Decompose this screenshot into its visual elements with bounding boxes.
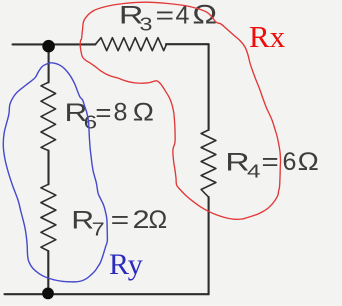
label R7 = 2 ohm: [71, 206, 167, 240]
node bottom junction: [42, 288, 54, 300]
wire R7 to bottom node: [47, 251, 49, 293]
wire between R6 and R7: [47, 151, 49, 185]
svg-text:Rx: Rx: [249, 19, 286, 54]
resistor R4: [201, 130, 216, 197]
label R6 = 8 ohm: [65, 99, 155, 133]
svg-text:=: =: [156, 2, 175, 30]
resistor R3: [96, 38, 167, 51]
label R4 = 6 ohm: [225, 148, 319, 182]
wire right vertical lower: [208, 197, 210, 294]
red loop Rx (encircles R3 and R4): [80, 2, 280, 219]
node top junction: [42, 40, 55, 53]
svg-text:=: =: [95, 99, 111, 127]
svg-text:Ω: Ω: [192, 0, 217, 30]
svg-text:=: =: [262, 148, 279, 176]
svg-text:3: 3: [140, 15, 153, 35]
wire top-right segment: [166, 43, 209, 45]
svg-text:7: 7: [92, 220, 105, 240]
wire top-left segment: [13, 43, 96, 45]
svg-text:Ry: Ry: [109, 248, 143, 281]
wire bottom: [5, 293, 209, 295]
svg-text:=: =: [111, 206, 130, 234]
svg-text:8: 8: [114, 99, 128, 127]
resistor R7: [41, 184, 56, 251]
wire left branch node to R6: [48, 46, 50, 82]
svg-text:Ω: Ω: [149, 206, 168, 234]
svg-text:4: 4: [247, 162, 261, 182]
label R3 = 4 ohm: [119, 0, 217, 35]
blue loop Ry (encircles R6 and R7): [3, 63, 107, 282]
svg-text:Ω: Ω: [298, 148, 319, 176]
svg-text:Ω: Ω: [133, 99, 154, 127]
svg-text:2: 2: [133, 206, 150, 234]
svg-text:6: 6: [283, 148, 297, 176]
wire right vertical upper: [208, 44, 210, 130]
resistor R6: [41, 82, 56, 150]
